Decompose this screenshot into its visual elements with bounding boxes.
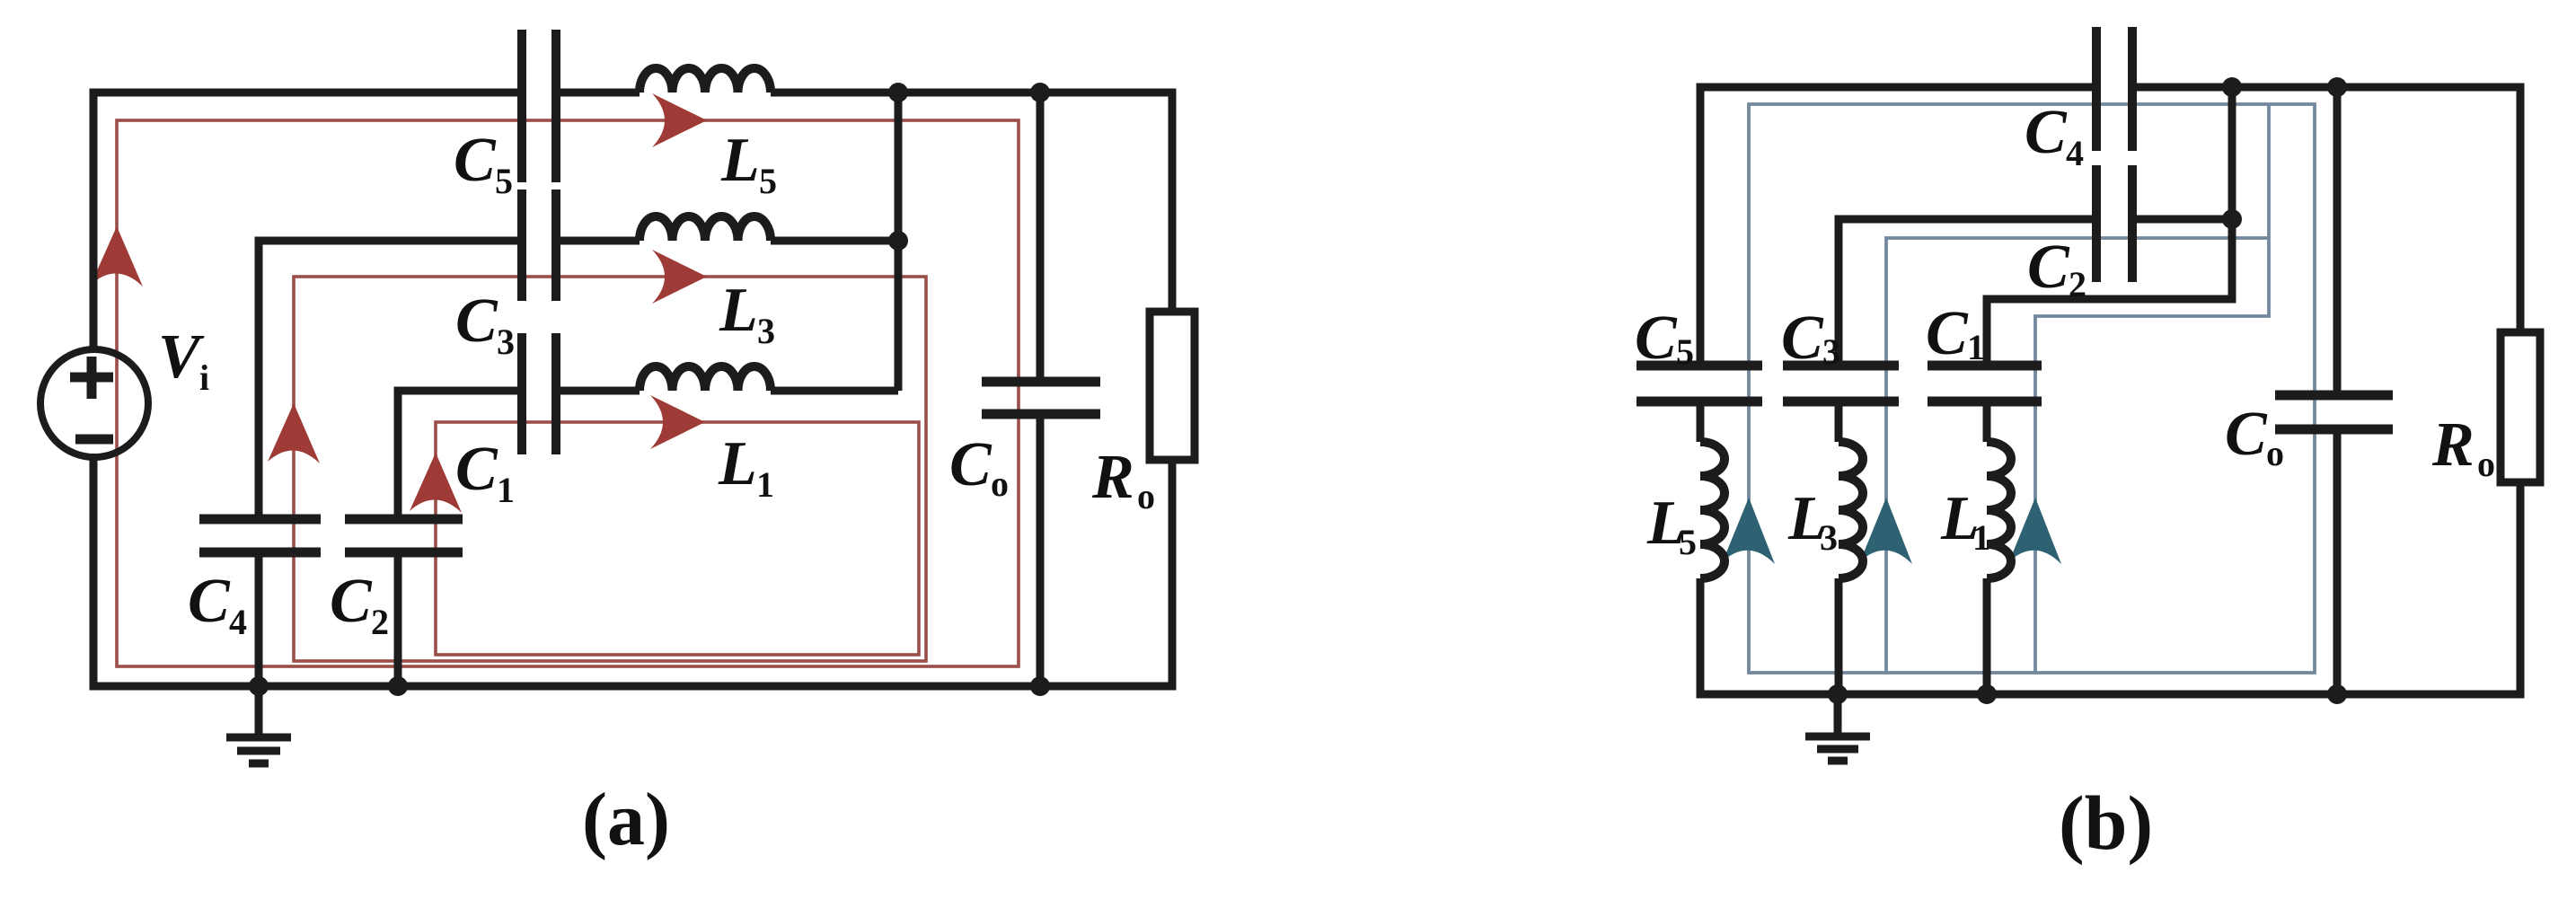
- svg-text:C: C: [188, 567, 231, 636]
- svg-text:2: 2: [371, 602, 389, 642]
- arrow right on loop i3 top: [652, 250, 707, 304]
- node ground L3: [1828, 684, 1848, 704]
- wire: L3 to node column: [771, 237, 898, 245]
- svg-text:C: C: [1926, 299, 1969, 368]
- arrow up on loop i3 left: [268, 403, 320, 463]
- capacitor C3 plates: [522, 190, 556, 301]
- svg-text:L: L: [719, 276, 758, 345]
- svg-text:C: C: [2027, 233, 2070, 302]
- wire: Co bottom: [1037, 414, 1045, 686]
- svg-text:C: C: [2025, 98, 2068, 167]
- Vi plus sign: [70, 357, 113, 399]
- capacitor C1 plates: [1928, 366, 2042, 401]
- wire: left rail below Vi, bottom rail, right rail to Ro bottom: [93, 457, 1172, 686]
- current loop i3b (L3-C2): [1886, 238, 2269, 673]
- svg-text:(a): (a): [582, 778, 670, 861]
- svg-text:C: C: [330, 567, 373, 636]
- svg-text:R: R: [1091, 443, 1134, 512]
- wire: Ro bottom, bottom rail, up to L5 bottom: [1700, 482, 2520, 694]
- svg-text:o: o: [2477, 444, 2495, 484]
- current loop i1 (C2-C1-L1): [436, 422, 919, 655]
- svg-text:C: C: [455, 287, 498, 356]
- ground bars: [1805, 736, 1870, 761]
- arrow up on loop i5 left: [91, 226, 143, 287]
- svg-text:R: R: [2431, 410, 2475, 480]
- wire: L1 to node column: [771, 387, 898, 395]
- svg-text:C: C: [455, 435, 498, 504]
- inductor L1: [640, 366, 771, 391]
- current loop i3 (C4-C3-L3): [294, 277, 926, 661]
- svg-text:3: 3: [497, 322, 515, 362]
- capacitor C4 plates: [199, 519, 321, 552]
- wire: Co bottom: [2333, 429, 2342, 694]
- node L5/column: [888, 83, 908, 102]
- wire: C4 up to row2 and to C3: [259, 241, 522, 519]
- svg-text:4: 4: [2066, 133, 2084, 173]
- Vi minus sign: [75, 435, 113, 445]
- wire: C2 bottom to ground rail: [394, 552, 402, 686]
- capacitor C5 plates: [522, 30, 556, 182]
- wire: Co top: [1037, 93, 1045, 382]
- svg-text:5: 5: [1679, 522, 1697, 562]
- svg-text:C: C: [454, 126, 497, 195]
- wire: C1 bottom to L1: [1983, 401, 1991, 442]
- svg-text:i: i: [199, 357, 209, 398]
- svg-text:5: 5: [1676, 331, 1694, 372]
- svg-text:1: 1: [756, 464, 774, 505]
- node ground Co: [2327, 684, 2347, 704]
- ground bars: [226, 737, 291, 763]
- svg-text:4: 4: [229, 602, 247, 642]
- source Vi circle fill: [40, 349, 148, 457]
- wire: top wire from C4 to right rail down to Ro: [2132, 87, 2520, 332]
- inductor L3: [1839, 442, 1863, 578]
- svg-text:o: o: [1137, 476, 1155, 516]
- capacitor C4 plates: [2096, 27, 2132, 151]
- svg-text:C: C: [2225, 400, 2268, 469]
- svg-text:C: C: [1635, 304, 1678, 373]
- wire: C2 up to row3 and to C1: [398, 391, 522, 519]
- svg-text:o: o: [2266, 433, 2284, 473]
- current loop i1b (L1-C2 column): [2035, 104, 2269, 673]
- svg-text:3: 3: [757, 311, 775, 351]
- wire: L3 to ground rail: [1835, 578, 1843, 694]
- svg-text:3: 3: [1822, 331, 1840, 372]
- node Co bottom: [1030, 676, 1050, 696]
- wire: node column joining L5,L3,L1: [895, 93, 903, 391]
- arrow up on loop i3b: [1860, 498, 1912, 564]
- inductor L5: [1700, 442, 1725, 578]
- ground stub: [255, 686, 263, 737]
- capacitor C5 plates: [1636, 366, 1762, 401]
- node L3/column: [888, 231, 908, 251]
- resistor Ro body: [2501, 332, 2540, 482]
- wire: node column down and across to C1 top: [1987, 87, 2232, 366]
- wire: C3 top to row C2: [1839, 219, 2096, 366]
- svg-text:C: C: [949, 430, 992, 499]
- svg-text:5: 5: [495, 161, 513, 201]
- svg-text:o: o: [991, 463, 1009, 504]
- inductor L1: [1987, 442, 2011, 578]
- capacitor Co plates: [2275, 395, 2393, 429]
- svg-text:2: 2: [2069, 264, 2086, 304]
- wire: C3 to L3: [556, 237, 640, 245]
- arrow right on loop i1 top: [650, 395, 705, 449]
- node C4 ground: [249, 676, 269, 696]
- wire: row C2 to node column: [2132, 216, 2232, 224]
- arrow up on loop i1 left: [410, 453, 462, 513]
- capacitor C2 plates: [2096, 165, 2132, 282]
- wire: C3 bottom to L3: [1835, 401, 1843, 442]
- wire: C5 to L5: [556, 89, 640, 97]
- capacitor C2 plates: [345, 519, 463, 552]
- wire: L5 to top-right corner and right rail to Ro top: [771, 93, 1172, 312]
- inductor L3: [640, 216, 771, 241]
- node row C2 / column: [2222, 209, 2242, 229]
- svg-text:1: 1: [1967, 327, 1985, 367]
- capacitor Co plates: [982, 382, 1100, 414]
- arrow up on loop i1b: [2009, 498, 2061, 564]
- svg-text:3: 3: [1820, 517, 1838, 558]
- inductor L5: [640, 68, 771, 93]
- svg-text:C: C: [1781, 304, 1824, 373]
- capacitor C1 plates: [522, 333, 556, 454]
- voltage source Vi circle: [40, 349, 148, 457]
- node top Co: [2327, 77, 2347, 97]
- resistor Ro body: [1150, 312, 1195, 460]
- node ground L1: [1977, 684, 1997, 704]
- svg-text:V: V: [158, 322, 205, 392]
- arrow up on loop i5b: [1723, 498, 1775, 564]
- capacitor C3 plates: [1783, 366, 1899, 401]
- current loop i5b (L5-C4-Co): [1749, 104, 2315, 673]
- svg-text:L: L: [720, 126, 760, 195]
- wire: C5 bottom plate to L5: [1697, 401, 1705, 442]
- wire: top-left rail and top wire to C5: [93, 93, 522, 349]
- svg-text:(b): (b): [2059, 780, 2153, 866]
- current loop i5 (Vi-C5-L5-Co): [117, 120, 1019, 666]
- svg-text:L: L: [718, 429, 757, 498]
- svg-text:1: 1: [1972, 517, 1990, 558]
- wire: C4 bottom to ground rail: [255, 552, 263, 686]
- svg-text:1: 1: [497, 470, 515, 510]
- wire: Co top: [2333, 87, 2342, 395]
- node top column: [2222, 77, 2242, 97]
- ground stub: [1834, 694, 1842, 734]
- arrow right on loop i5 top: [652, 93, 707, 147]
- wire: L1 to ground rail: [1983, 578, 1991, 694]
- node C2 ground: [388, 676, 408, 696]
- wire: left rail up and top wire to C4: [1700, 87, 2096, 366]
- wire: C1 to L1: [556, 387, 640, 395]
- node Co top: [1030, 83, 1050, 102]
- svg-text:5: 5: [759, 161, 777, 201]
